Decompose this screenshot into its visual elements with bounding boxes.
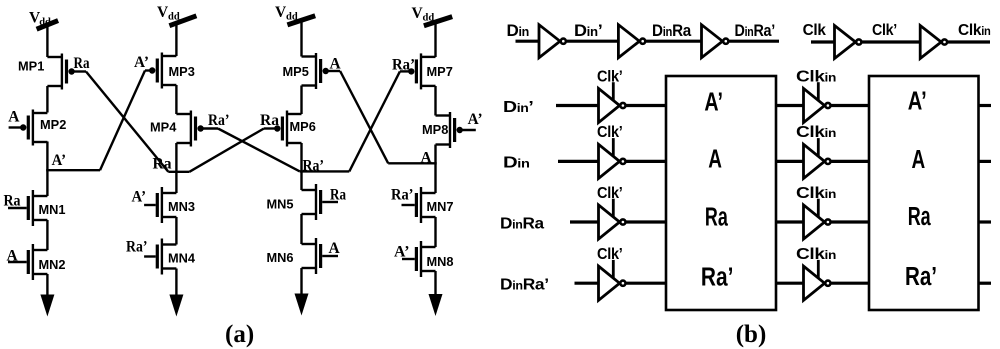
gate wire MN3 (A') (144, 204, 156, 206)
wire rail col4 (434, 145, 436, 194)
ground col3 (295, 294, 309, 316)
nmos MN6 (302, 243, 317, 245)
svg-text:MN3: MN3 (168, 199, 195, 214)
svg-text:MP7: MP7 (427, 64, 453, 79)
wire rail col4 (434, 271, 436, 295)
wire diagonal MP4 gate to Ra' node (218, 129, 300, 172)
clocked inverter (Clkin) row 4 (804, 266, 825, 300)
wire rail col1 (46, 25, 48, 57)
svg-text:Din’: Din’ (574, 21, 603, 40)
power Vdd rail col1 (37, 21, 59, 30)
svg-text:A: A (912, 146, 926, 174)
svg-text:Clk’: Clk’ (597, 68, 623, 85)
wire diagonal MP1 gate to Ra node (86, 72, 168, 172)
svg-text:Din’: Din’ (503, 99, 534, 116)
inverter U1 (Din -> Din') (539, 25, 560, 58)
svg-text:dd: dd (286, 12, 298, 23)
svg-text:A: A (8, 109, 20, 126)
pmos MP2 (33, 112, 48, 114)
wire box1 to Clkin inverter row 1 (776, 104, 804, 107)
wire rail col3 (300, 143, 302, 190)
wire Clk to inverter (811, 40, 835, 43)
wire inverter to latch box row 4 (626, 282, 666, 285)
svg-text:MP1: MP1 (18, 59, 44, 74)
wire Din input (558, 160, 600, 163)
svg-text:A: A (708, 145, 722, 173)
wire DinRa' input (575, 282, 600, 285)
svg-text:Ra’: Ra’ (303, 158, 325, 175)
wire inverter to latch box 2 row 4 (831, 282, 869, 285)
gate wire MP1 (Ra) (72, 70, 86, 72)
svg-text:MP6: MP6 (290, 119, 316, 134)
svg-text:A’: A’ (908, 88, 927, 116)
wire rail col1 (46, 220, 48, 250)
svg-text:DinRa’: DinRa’ (735, 21, 776, 40)
wire diagonal A' node to MP3 gate (100, 71, 145, 171)
wire rail col1 (46, 86, 48, 113)
svg-text:Ra’: Ra’ (391, 187, 414, 204)
pmos MP3 (162, 55, 177, 57)
wire inverter to latch box 2 row 3 (831, 220, 869, 223)
svg-text:Clk’: Clk’ (872, 22, 897, 39)
power Vdd rail col4 (424, 17, 452, 26)
svg-text:Ra: Ra (260, 112, 279, 129)
wire rail col2 (175, 143, 177, 193)
svg-text:Ra: Ra (705, 203, 728, 231)
svg-text:Din: Din (507, 21, 530, 40)
ground col2 (169, 295, 183, 317)
wire DinRa' (729, 40, 779, 43)
wire rail col4 (434, 86, 436, 116)
svg-text:A: A (329, 240, 341, 257)
svg-text:DinRa’: DinRa’ (500, 277, 549, 294)
wire DinRa (646, 40, 702, 43)
svg-text:A’: A’ (704, 88, 723, 116)
pmos MP6 (287, 113, 302, 115)
svg-text:MP8: MP8 (422, 122, 448, 137)
nmos MN7 (421, 192, 436, 194)
pmos MP8 (436, 114, 451, 116)
svg-text:MN8: MN8 (427, 254, 454, 269)
inverter U3 (DinRa -> DinRa') (702, 25, 723, 58)
svg-text:MN6: MN6 (267, 250, 294, 265)
wire rail col4 (434, 21, 436, 57)
wire Din' input (556, 104, 600, 107)
gate wire MN2 (A) (8, 261, 27, 263)
inverter U5 (Clk' -> Clkin) (920, 26, 941, 59)
wire inverter to latch box 2 row 2 (831, 160, 869, 163)
nmos MN1 (33, 195, 48, 197)
clocked inverter (Clkin) row 3 (804, 205, 825, 239)
wire rail col4 (434, 217, 436, 247)
svg-text:dd: dd (168, 12, 180, 23)
wire diagonal MP5 gate to A node (340, 71, 388, 163)
gate wire MN8 (A') (402, 258, 415, 260)
wire Din to inverter (516, 40, 540, 43)
wire inverter to latch box row 1 (626, 104, 666, 107)
wire rail col2 (175, 21, 177, 56)
svg-text:Clk’: Clk’ (597, 185, 623, 202)
nmos MN5 (302, 189, 317, 191)
svg-text:Clk’: Clk’ (597, 124, 623, 141)
wire rail col2 (175, 269, 177, 296)
svg-text:(a): (a) (225, 321, 254, 348)
gate wire MP2 (A) (9, 126, 24, 128)
svg-text:A: A (7, 248, 19, 265)
pmos MP7 (421, 56, 436, 58)
node A wire (col4 output) (388, 162, 437, 164)
clocked inverter (Clk') row 4 (599, 266, 620, 300)
nmos MN3 (162, 192, 177, 194)
gate wire MP3 (A') (145, 69, 152, 71)
clocked inverter (Clk') row 2 (599, 144, 620, 178)
svg-text:Ra’: Ra’ (392, 57, 415, 74)
node Ra' wire (col3 output) (300, 170, 350, 172)
latch box 1 (666, 76, 776, 310)
power Vdd rail col2 (169, 16, 196, 26)
svg-text:Ra: Ra (908, 203, 932, 231)
svg-text:Ra’: Ra’ (126, 239, 148, 256)
gate wire MN7 (Ra') (402, 204, 415, 206)
wire rail col3 (300, 214, 302, 244)
gate wire MP7 (Ra') (400, 70, 411, 72)
clocked inverter (Clkin) row 2 (804, 144, 825, 178)
wire box1 to Clkin inverter row 4 (776, 282, 804, 285)
wire output stub row 2 (979, 160, 991, 163)
gate wire MN6 (A) (322, 255, 338, 257)
gate wire MP4 (Ra') (201, 127, 218, 129)
pmos MP4 (176, 113, 191, 115)
svg-text:Ra’: Ra’ (905, 263, 937, 291)
wire Clkin (948, 40, 990, 43)
ground col1 (40, 295, 54, 317)
wire diagonal Ra node to MP6 gate (189, 129, 264, 172)
svg-text:A’: A’ (468, 111, 483, 128)
wire inverter to latch box row 2 (626, 160, 666, 163)
wire rail col3 (300, 86, 302, 115)
clocked inverter (Clk') row 1 (599, 88, 620, 122)
svg-text:Ra: Ra (4, 193, 21, 210)
clocked inverter (Clk') row 3 (599, 205, 620, 239)
svg-text:Clkin: Clkin (796, 124, 836, 141)
svg-text:Clkin: Clkin (796, 185, 836, 202)
svg-text:MP2: MP2 (40, 117, 66, 132)
ground col4 (429, 294, 443, 316)
pmos MP1 (47, 56, 62, 58)
nmos MN2 (33, 249, 48, 251)
svg-text:A’: A’ (52, 152, 67, 169)
svg-text:Clk’: Clk’ (597, 246, 623, 263)
node A' wire (col1 output) (46, 169, 100, 171)
gate wire MN4 (Ra') (144, 255, 156, 257)
wire diagonal Ra' node to MP7 gate (349, 71, 400, 171)
gate wire MP6 (Ra) (264, 127, 277, 129)
svg-text:Clkin: Clkin (796, 68, 836, 85)
svg-text:(b): (b) (736, 321, 767, 348)
nmos MN8 (421, 246, 436, 248)
inverter U4 (Clk -> Clk') (835, 26, 856, 59)
svg-text:Ra: Ra (74, 55, 90, 72)
svg-text:DinRa: DinRa (500, 215, 544, 232)
svg-text:Clk: Clk (803, 22, 826, 39)
power Vdd rail col3 (287, 16, 315, 25)
svg-text:A’: A’ (134, 54, 149, 71)
latch box 2 (869, 76, 979, 310)
svg-text:Clkin: Clkin (958, 22, 991, 39)
svg-text:Ra’: Ra’ (701, 263, 734, 291)
wire rail col1 (46, 274, 48, 296)
svg-text:MN5: MN5 (267, 197, 294, 212)
wire output stub row 4 (979, 282, 991, 285)
svg-text:A’: A’ (394, 244, 410, 261)
wire output stub row 3 (979, 220, 991, 223)
svg-text:MP3: MP3 (169, 64, 195, 79)
wire rail col3 (300, 21, 302, 57)
wire DinRa input (570, 220, 600, 223)
svg-text:A: A (330, 56, 342, 73)
wire box1 to Clkin inverter row 2 (776, 160, 804, 163)
wire output stub row 1 (979, 104, 991, 107)
svg-text:Ra’: Ra’ (208, 112, 230, 129)
svg-text:A: A (421, 150, 433, 167)
wire Clk' (862, 40, 921, 43)
svg-text:MN2: MN2 (39, 257, 66, 272)
wire rail col2 (175, 217, 177, 245)
svg-text:dd: dd (423, 13, 435, 24)
svg-text:MP5: MP5 (283, 64, 309, 79)
wire rail col3 (300, 268, 302, 295)
wire rail col1 (46, 142, 48, 197)
gate wire MP5 (A) (326, 70, 340, 72)
svg-text:MN1: MN1 (39, 202, 66, 217)
svg-text:Ra: Ra (330, 187, 346, 204)
wire inverter to latch box row 3 (626, 220, 666, 223)
gate wire MN5 (Ra) (322, 201, 338, 203)
svg-text:MN4: MN4 (168, 251, 196, 266)
inverter U2 (Din' -> DinRa) (618, 25, 639, 58)
svg-text:Clkin: Clkin (796, 246, 836, 263)
nmos MN4 (162, 243, 177, 245)
svg-text:dd: dd (39, 17, 51, 28)
pmos MP5 (302, 55, 317, 57)
svg-text:MP4: MP4 (150, 120, 177, 135)
svg-text:Din: Din (503, 155, 530, 172)
clocked inverter (Clkin) row 1 (804, 88, 825, 122)
gate wire MP8 (A') (460, 129, 476, 131)
svg-text:MN7: MN7 (427, 199, 454, 214)
wire inverter to latch box 2 row 1 (831, 104, 869, 107)
svg-text:A’: A’ (132, 189, 147, 206)
node Ra wire (col2 output) (168, 171, 189, 173)
wire rail col2 (175, 85, 177, 114)
svg-text:DinRa: DinRa (652, 21, 692, 40)
gate wire MN1 (Ra) (8, 207, 27, 209)
wire box1 to Clkin inverter row 3 (776, 220, 804, 223)
wire Din' (567, 40, 619, 43)
